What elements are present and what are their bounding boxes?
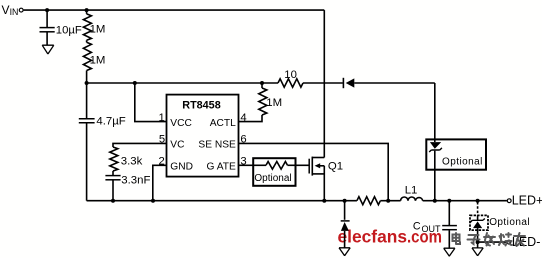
svg-text:3.3k: 3.3k [121, 155, 143, 167]
svg-text:1M: 1M [90, 55, 106, 67]
node divider mid (VCC supply node) [85, 81, 89, 85]
wire gate lead [296, 164, 309, 166]
wire pin6 SENSE [239, 143, 389, 200]
IC U1 RT8458 [167, 95, 239, 177]
svg-text:IN: IN [10, 7, 19, 17]
watermark elecfans.com [338, 227, 443, 247]
svg-text:4.7µF: 4.7µF [96, 115, 125, 127]
optional zener box (LED-) [470, 215, 530, 230]
node COUT-rail [447, 199, 451, 203]
node LED- branch [476, 199, 480, 203]
wire LED- row [478, 241, 507, 243]
svg-text:L1: L1 [405, 185, 418, 197]
ground (COUT) [444, 248, 455, 256]
svg-text:GND: GND [170, 162, 193, 173]
node zener-rail [433, 199, 437, 203]
node SENSE-rail [386, 199, 390, 203]
inductor L1 [401, 185, 423, 201]
wire pin2 GND [153, 165, 167, 200]
svg-text:Optional: Optional [489, 217, 530, 228]
terminal LED+ [507, 194, 542, 208]
node ACTL tap [260, 81, 264, 85]
wire output top vertical [434, 83, 436, 139]
optional zener box (top) [426, 139, 486, 169]
wire bottom rail [87, 200, 507, 202]
capacitor COUT [413, 201, 457, 249]
diode D2 freewheel [341, 201, 350, 248]
node LED- junction [476, 240, 480, 244]
watermark chinese characters [453, 233, 526, 246]
resistor R 1M (lower) [83, 40, 105, 83]
zener diode Z2 [471, 215, 485, 242]
node VIN-C10 junction [45, 8, 49, 12]
svg-text:RT8458: RT8458 [182, 100, 220, 112]
svg-text:ACTL: ACTL [210, 118, 236, 129]
resistor R 10 [278, 69, 303, 87]
transistor Q1 [309, 157, 343, 201]
svg-text:G ATE: G ATE [207, 162, 236, 173]
svg-text:Optional: Optional [254, 173, 291, 184]
svg-text:Q1: Q1 [328, 160, 343, 172]
terminal VIN [2, 3, 24, 17]
svg-text:LED+: LED+ [512, 194, 542, 208]
resistor R 1M (ACTL) [239, 83, 283, 122]
capacitor C 3.3nF [105, 171, 150, 201]
svg-text:SE NSE: SE NSE [198, 140, 236, 151]
ground (LED-) [472, 248, 483, 256]
zener diode Z1 [429, 139, 442, 200]
wire dashed to optional box [477, 202, 479, 215]
wire pin5 VC [113, 143, 167, 147]
svg-text:1: 1 [159, 112, 165, 124]
ground (under 10uF) [42, 45, 54, 54]
resistor R sense [357, 197, 381, 205]
wire LED- ground drop [477, 242, 479, 248]
terminal LED- [507, 235, 540, 249]
svg-text:VCC: VCC [170, 118, 192, 129]
node VIN-R1 junction [85, 8, 89, 12]
svg-text:3.3nF: 3.3nF [121, 174, 150, 186]
node source-rail [322, 199, 326, 203]
optional gate resistor box [253, 158, 295, 186]
wire top rail [24, 9, 325, 11]
resistor R 1M (upper) [83, 10, 105, 40]
svg-text:1M: 1M [90, 24, 106, 36]
capacitor C 10uF [40, 10, 82, 45]
capacitor C 4.7uF [79, 83, 126, 201]
svg-text:OUT: OUT [422, 224, 442, 234]
svg-text:10: 10 [284, 69, 297, 81]
svg-text:VC: VC [170, 140, 184, 151]
wire mid rail y83 [87, 82, 343, 84]
svg-text:1M: 1M [266, 97, 282, 109]
svg-text:V: V [2, 3, 10, 17]
diode D1 (to VIN clamp) [343, 78, 434, 88]
node freewheel diode [343, 199, 347, 203]
wire pin3 GATE [239, 164, 254, 166]
node 3.3nF-gnd [111, 199, 115, 203]
wire drain vertical (VIN to drain) [323, 10, 325, 157]
svg-text:10µF: 10µF [56, 24, 82, 36]
ground (freewheel) [339, 248, 350, 256]
svg-text:4: 4 [240, 112, 246, 124]
wire pin1 VCC [135, 83, 167, 122]
node VCC tap [133, 81, 137, 85]
svg-text:C: C [413, 221, 421, 233]
resistor R 3.3k [110, 147, 143, 171]
node GND-rail [151, 199, 155, 203]
svg-text:Optional: Optional [442, 157, 483, 168]
